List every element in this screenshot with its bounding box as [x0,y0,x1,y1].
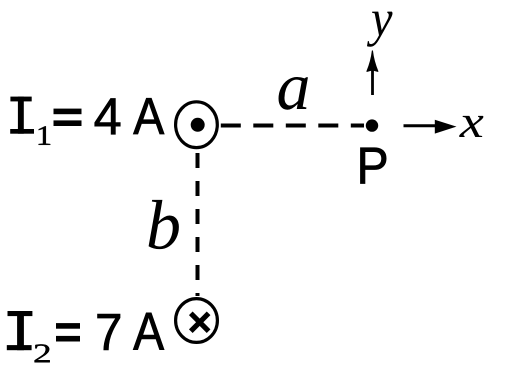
unit A (second) [133,313,164,350]
distance label b [149,200,179,249]
unit A (first) [133,98,164,134]
dashed distance line a (horizontal) [221,124,364,128]
subscript 1 [39,126,51,144]
current label I2 (serif I) [7,311,33,350]
point P label [360,148,386,184]
value 4 [95,99,120,135]
wire 1 symbol: current out of page (circle) [176,102,218,148]
x axis label [459,116,483,137]
subscript 2 [35,344,50,362]
value 7 [98,314,120,350]
distance label a [279,77,308,110]
point P dot [366,119,378,131]
current label I1 (serif I) [10,97,34,134]
wire 2 cross [191,313,209,331]
wire 2 symbol: current into page (circle) [176,299,218,343]
wire 1 dot [191,118,205,132]
equals sign 2 [56,323,80,341]
dashed distance line b (vertical) [196,153,200,296]
x axis arrow [404,120,457,134]
y axis label [367,12,393,47]
y axis arrow [367,51,378,95]
equals sign 1 [54,109,82,126]
